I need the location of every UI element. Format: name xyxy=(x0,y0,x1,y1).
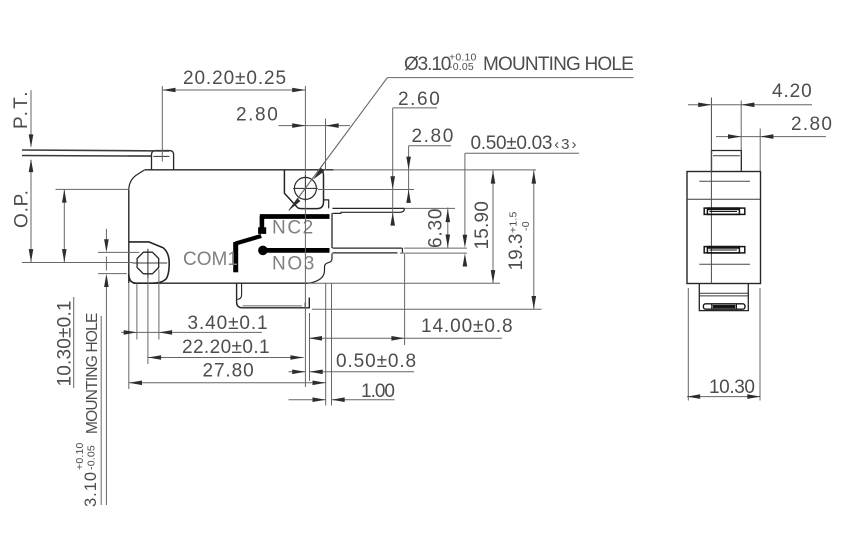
svg-text:10.30±0.1: 10.30±0.1 xyxy=(55,300,76,386)
svg-text:COM1: COM1 xyxy=(183,249,238,270)
dim O.P. line xyxy=(30,160,32,262)
arrow 0.50±0.03 down xyxy=(463,235,468,248)
NO terminal tip step xyxy=(401,248,403,253)
front view inner line upper xyxy=(699,180,750,182)
arrow 14.00 right xyxy=(391,336,404,341)
arrow 1.00 right (outside) xyxy=(332,397,345,402)
extension line body top to right xyxy=(333,169,536,171)
svg-text:2.80: 2.80 xyxy=(791,114,833,135)
arrow 3.40 right (outside) xyxy=(159,330,172,335)
hole BL crosshair vertical xyxy=(147,249,149,278)
dim P.T. tick and line xyxy=(30,90,32,146)
svg-text:0.50±0.03‹3›: 0.50±0.03‹3› xyxy=(471,133,579,154)
dim 3.40 line xyxy=(121,331,262,333)
arrow 22.20 left xyxy=(148,355,161,360)
NO contact dot xyxy=(258,246,268,256)
NC terminal bottom edge with tip curl xyxy=(333,209,405,214)
arrow 2.80 rv right (outside) xyxy=(760,134,773,139)
svg-text:MOUNTING HOLE: MOUNTING HOLE xyxy=(483,54,633,75)
extension line hole BL left tangent vertical xyxy=(136,284,138,340)
hole BL top tangent extension xyxy=(98,251,139,253)
top-right mounting ear xyxy=(284,170,323,209)
svg-text:3.40±0.1: 3.40±0.1 xyxy=(188,313,269,334)
RIGHT VIEW xyxy=(687,98,826,401)
svg-text:6.30: 6.30 xyxy=(426,208,447,248)
svg-text:2.60: 2.60 xyxy=(398,89,441,110)
extension line hole TR center horizontal xyxy=(318,189,414,191)
NO terminal top edge xyxy=(333,247,403,249)
front view bottom slot dark bar xyxy=(713,305,736,308)
extension line tab bottom to right xyxy=(312,308,542,310)
arrow 10.30 left up xyxy=(62,189,67,202)
arrow 10.30 left xyxy=(687,394,700,399)
arrow 0.50±0.8 left (outside) xyxy=(292,370,305,375)
svg-text:3.10: 3.10 xyxy=(82,471,100,507)
dim 19.3 line xyxy=(533,171,535,310)
arrow O.P. down at hole line xyxy=(29,249,34,262)
front view vertical seam xyxy=(710,98,712,284)
lever pivot cross vertical / extension line to 20.20 dim xyxy=(161,86,163,162)
arrow 2.80 down at body top xyxy=(406,157,411,170)
arrow MH leader down xyxy=(104,239,109,252)
arrow 27.80 right xyxy=(313,381,326,386)
extension button right edge up xyxy=(740,101,742,151)
svg-text:15.90: 15.90 xyxy=(472,201,493,250)
front view bottom slot inner ticks xyxy=(712,304,737,309)
arrow 6.30 down xyxy=(446,235,451,248)
body right edge below NO terminal with step and curve xyxy=(308,253,333,283)
underline 3.10 mounting hole rotated xyxy=(100,316,102,505)
svg-text:19.3: 19.3 xyxy=(506,234,527,271)
body right edge step near ear xyxy=(324,200,329,209)
dim 6.30 line xyxy=(447,208,449,249)
extension left body edge down xyxy=(687,288,689,401)
dim 10.30 line xyxy=(687,396,761,398)
svg-text:O.P.: O.P. xyxy=(12,189,33,228)
front view inner line lower xyxy=(699,263,750,265)
arrow 2.80 top right (outside) xyxy=(326,123,339,128)
front view bottom slot outline xyxy=(703,304,745,309)
hole BL bottom tangent extension xyxy=(98,273,127,275)
svg-text:4.20: 4.20 xyxy=(772,81,813,102)
hole TR crosshair vertical dark segment xyxy=(304,175,306,202)
underline Ø3.10 mounting hole top xyxy=(387,77,633,79)
svg-text:0.50±0.8: 0.50±0.8 xyxy=(336,351,417,372)
svg-text:-0.05: -0.05 xyxy=(449,61,474,73)
lever pivot cross horizontal xyxy=(153,155,169,157)
arrow O.P. up at lever xyxy=(29,159,34,172)
body right edge between terminals xyxy=(331,213,333,248)
arrow 2.80 up at hole center xyxy=(406,190,411,203)
arrow 15.90 down xyxy=(491,270,496,283)
hole BL crosshair horizontal xyxy=(132,262,167,264)
arrow 4.20 left (outside) xyxy=(698,103,711,108)
lever arm top line xyxy=(22,150,169,151)
extension line ear right edge xyxy=(325,119,327,171)
arrow MH leader up xyxy=(104,274,109,287)
svg-text:10.30: 10.30 xyxy=(709,377,755,398)
dim 20.20 line xyxy=(162,89,305,91)
arrow 6.30 up xyxy=(446,209,451,222)
arrow 19.3 down xyxy=(532,296,537,309)
arrow 4.20 right (outside) xyxy=(741,103,754,108)
dim 2.80 right view line xyxy=(716,136,826,138)
wire body left edge xyxy=(128,190,130,283)
COM bottom tab inner bottom line xyxy=(243,305,303,307)
svg-text:27.80: 27.80 xyxy=(203,361,255,382)
arrow 20.20 left xyxy=(162,88,175,93)
arrow 10.30 left down xyxy=(62,249,67,262)
svg-text:MOUNTING HOLE: MOUNTING HOLE xyxy=(84,313,101,434)
NC terminal top edge xyxy=(333,207,405,209)
extension line NC terminal top xyxy=(405,207,456,209)
COM bottom tab inner fold xyxy=(237,283,241,299)
extension line NO terminal top xyxy=(404,247,467,249)
extension line hole BL right tangent vertical xyxy=(158,270,160,340)
arrow 2.60 up at terminal bottom xyxy=(390,212,395,225)
arrow leader Ø3.10 at ear chamfer xyxy=(289,198,301,210)
wire body top-left chamfer xyxy=(129,170,145,190)
arrow 2.60 down at hole center xyxy=(390,176,395,189)
arrow 0.50±0.8 right (outside) xyxy=(310,370,323,375)
wire body top edge xyxy=(145,169,334,171)
dim 22.20 line xyxy=(148,357,304,359)
dim 2.80 top line xyxy=(279,125,351,127)
svg-text:14.00±0.8: 14.00±0.8 xyxy=(421,316,514,337)
mounting hole top-right (circle) xyxy=(294,177,316,199)
svg-text:2.80: 2.80 xyxy=(236,105,279,126)
extension line body bottom to right xyxy=(310,282,500,284)
COM bottom tab outer outline xyxy=(237,283,310,308)
arrow leader Ø3.10 at circle edge xyxy=(313,168,324,180)
lever arm bottom line xyxy=(22,155,152,158)
arrow 22.20 right xyxy=(290,355,303,360)
front view terminal slot 2 xyxy=(704,247,745,253)
dim 0.50±0.03 underline and leader xyxy=(465,153,579,262)
svg-text:20.20±0.25: 20.20±0.25 xyxy=(183,68,287,89)
svg-text:+1.5: +1.5 xyxy=(508,211,520,233)
extension line NO terminal bottom xyxy=(400,252,467,254)
svg-text:2.80: 2.80 xyxy=(412,126,455,147)
svg-text:1.00: 1.00 xyxy=(361,381,394,402)
dim 0.50±0.8 line xyxy=(289,371,415,373)
front view bottom block xyxy=(699,284,748,311)
NO terminal bottom edge xyxy=(333,252,398,254)
arrow 14.00 left xyxy=(309,336,322,341)
plunger boss on top xyxy=(152,151,174,170)
dim 14.00 line xyxy=(309,337,502,339)
extension line hole BL center vertical xyxy=(147,278,149,364)
svg-text:NC2: NC2 xyxy=(272,218,315,239)
underline 10.30±0.1 rotated xyxy=(73,297,75,388)
NC fixed contact dot xyxy=(258,227,266,234)
front view main body xyxy=(687,172,761,284)
extension line body left edge down xyxy=(128,284,130,390)
svg-text:-0.05: -0.05 xyxy=(86,445,98,470)
svg-text:NO3: NO3 xyxy=(272,254,316,275)
hole TR crosshair horizontal xyxy=(293,187,318,189)
arrow 27.80 left xyxy=(129,381,142,386)
dim 27.80 line xyxy=(129,382,326,384)
bottom-left mounting ear xyxy=(129,242,169,283)
arrow 1.00 left (outside) xyxy=(313,397,326,402)
mounting hole bottom-left (octagon) xyxy=(137,252,159,274)
COM bottom tab right hook xyxy=(304,303,306,308)
extension pair for 1.00 right xyxy=(331,283,333,405)
reference line hole BL center left xyxy=(22,262,132,264)
dim 10.30 left line xyxy=(63,189,65,262)
svg-text:-0: -0 xyxy=(520,221,532,231)
dim 2.60 underline and leader xyxy=(393,108,437,223)
arrow 3.40 left (outside) xyxy=(124,330,137,335)
extension line NO terminal tip vertical xyxy=(404,254,406,345)
svg-text:22.20±0.1: 22.20±0.1 xyxy=(182,337,270,358)
arrow 0.50±0.03 up xyxy=(463,253,468,266)
NC contact bar (thick) xyxy=(260,214,330,219)
extension body right edge up xyxy=(759,129,761,172)
front view terminal slot 1 xyxy=(704,208,745,214)
NO contact bar (thick) xyxy=(263,248,330,253)
dim 4.20 line xyxy=(688,104,812,106)
dim 15.90 line xyxy=(492,171,494,284)
extension pair for 1.00 left xyxy=(325,283,327,405)
leader Ø3.10 diagonal xyxy=(289,78,388,211)
leader mounting hole left vertical xyxy=(105,229,107,505)
NC contact elbow down xyxy=(260,217,265,229)
COM movable blade xyxy=(236,236,262,244)
arrow 2.80 rv left (outside) xyxy=(728,134,741,139)
COM terminal post xyxy=(233,242,238,272)
extension line hole TR center vertical (long) xyxy=(304,86,306,387)
wire body bottom edge xyxy=(133,282,308,284)
dim 2.80 right underline and leader xyxy=(409,146,451,203)
svg-text:Ø3.10: Ø3.10 xyxy=(404,54,451,75)
arrow 19.3 up xyxy=(532,170,537,183)
arrow 15.90 up xyxy=(491,170,496,183)
extension line tab right edge vertical xyxy=(309,313,311,381)
front view button xyxy=(712,151,742,172)
front view seam line xyxy=(687,198,761,200)
arrow 20.20 right xyxy=(292,88,305,93)
arrow 10.30 right xyxy=(747,394,760,399)
front view bottom block inner double line xyxy=(699,293,748,296)
dim 1.00 line xyxy=(289,399,395,401)
svg-text:+0.10: +0.10 xyxy=(74,442,86,470)
extension right body edge down xyxy=(759,288,761,401)
arrow P.T. down at lever xyxy=(29,134,34,147)
front view button inner line xyxy=(713,155,740,157)
reference line body shoulder left xyxy=(56,188,129,190)
arrow 2.80 top left (outside) xyxy=(292,123,305,128)
svg-text:P.T.: P.T. xyxy=(11,89,32,129)
